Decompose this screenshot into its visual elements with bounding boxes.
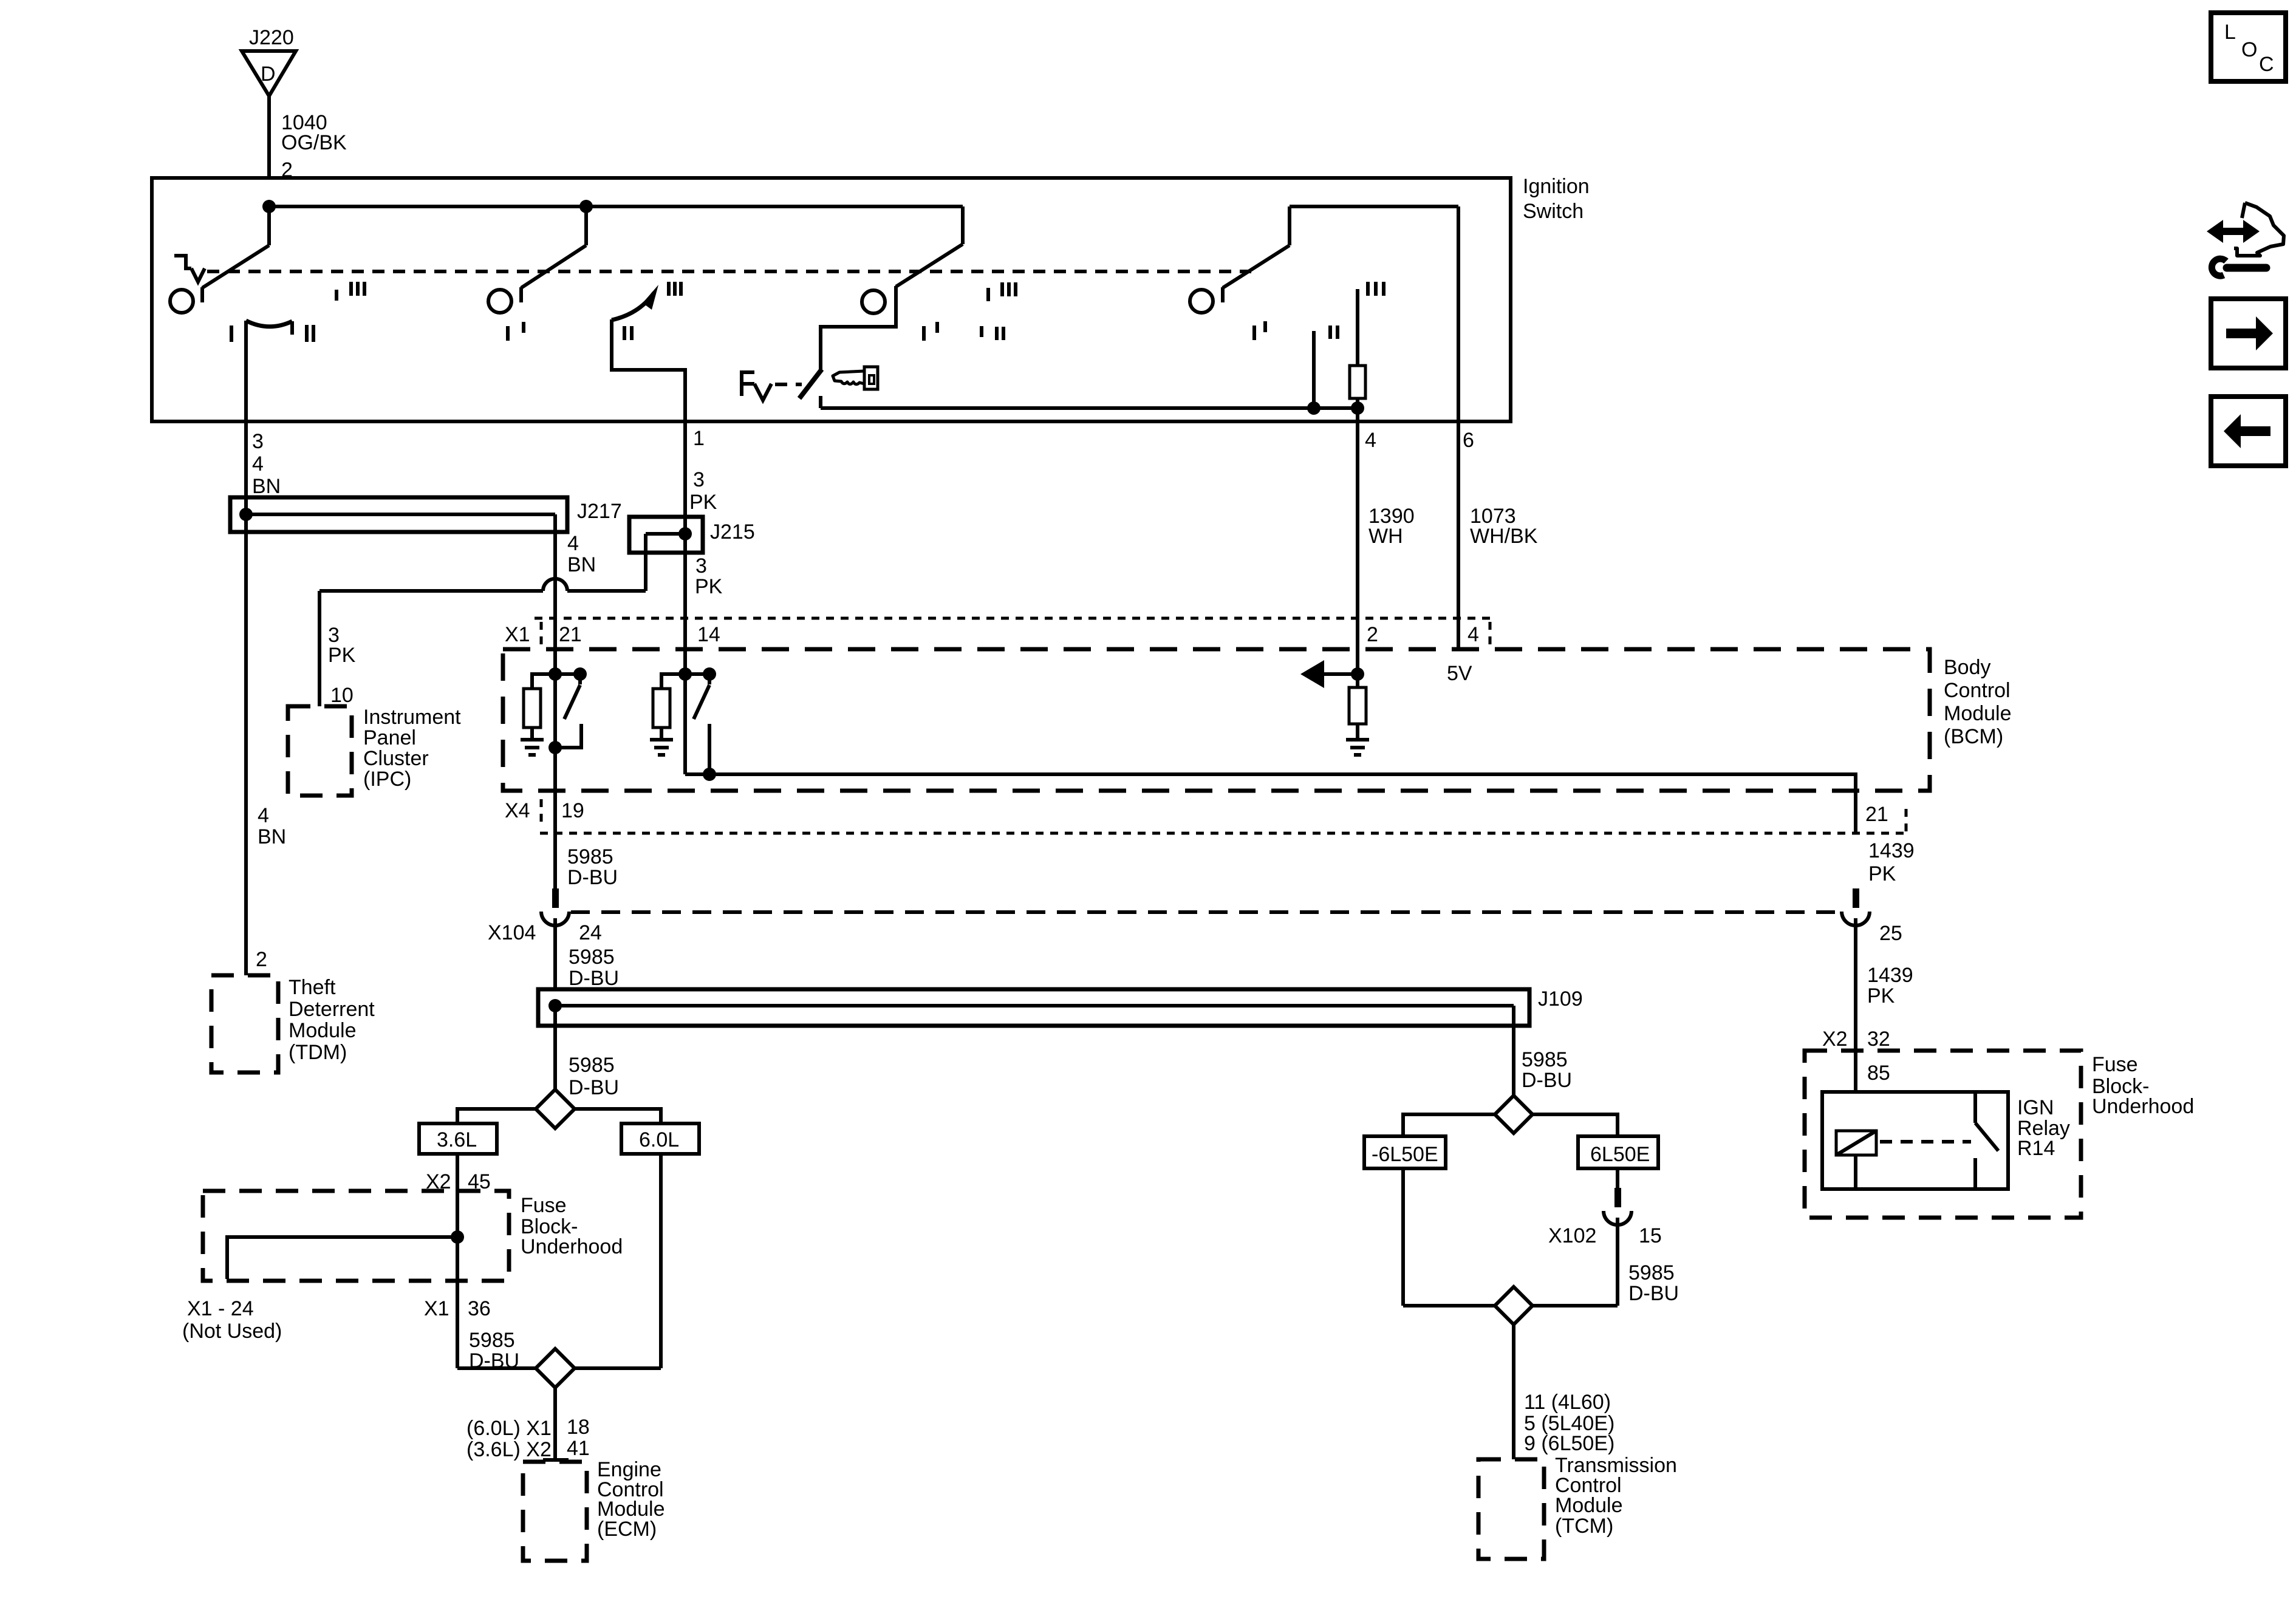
back navigation arrow box bbox=[2211, 397, 2286, 466]
option box 6L50E bbox=[1578, 1136, 1658, 1168]
wire ignition pin 4 bbox=[1358, 408, 1415, 674]
svg-text:2: 2 bbox=[256, 948, 267, 971]
svg-text:BN: BN bbox=[252, 475, 281, 498]
svg-text:PK: PK bbox=[1867, 984, 1895, 1007]
svg-text:D-BU: D-BU bbox=[1522, 1069, 1572, 1092]
BCM internal switch pin 21 bbox=[548, 667, 587, 791]
svg-text:(3.6L) X2: (3.6L) X2 bbox=[466, 1438, 552, 1461]
relay switch contact bbox=[1975, 1092, 1998, 1189]
BCM internal wire to pin 21 output bbox=[685, 674, 1856, 833]
svg-text:BN: BN bbox=[567, 553, 596, 576]
svg-text:24: 24 bbox=[579, 921, 602, 944]
svg-text:4: 4 bbox=[252, 452, 264, 476]
instrument panel cluster (IPC) box bbox=[288, 706, 461, 796]
svg-text:5985: 5985 bbox=[469, 1329, 515, 1352]
svg-text:19: 19 bbox=[561, 799, 584, 822]
BCM pulldown resistor pin 2 bbox=[1349, 674, 1366, 738]
svg-text:Ignition: Ignition bbox=[1523, 175, 1590, 198]
svg-text:5V: 5V bbox=[1447, 662, 1472, 685]
svg-text:Instrument: Instrument bbox=[363, 706, 461, 729]
wiper arc contact (switch 1 output) bbox=[231, 321, 313, 342]
internal bus line at box bottom bbox=[821, 401, 1364, 415]
svg-text:WH: WH bbox=[1368, 525, 1403, 548]
svg-text:X4: X4 bbox=[505, 799, 530, 822]
key operated switch blade bbox=[799, 369, 822, 408]
svg-text:X2: X2 bbox=[1822, 1028, 1848, 1051]
svg-text:D-BU: D-BU bbox=[569, 1076, 619, 1099]
splice pack J109 bbox=[538, 987, 1583, 1026]
svg-text:PK: PK bbox=[328, 644, 356, 667]
wire to 6.0L option bbox=[575, 1109, 661, 1123]
svg-text:(ECM): (ECM) bbox=[597, 1518, 657, 1541]
svg-text:5985: 5985 bbox=[569, 1054, 615, 1077]
svg-text:J215: J215 bbox=[710, 520, 755, 544]
svg-text:IGN: IGN bbox=[2017, 1096, 2054, 1119]
wire 1439 PK from X104 to fuse block bbox=[1822, 918, 1913, 1092]
BCM connector row X1 bbox=[505, 618, 1490, 646]
svg-text:-6L50E: -6L50E bbox=[1372, 1143, 1438, 1166]
fuse block underhood (right) box bbox=[1805, 1051, 2194, 1218]
svg-text:3: 3 bbox=[693, 468, 705, 491]
svg-text:41: 41 bbox=[567, 1437, 590, 1460]
svg-text:PK: PK bbox=[689, 491, 717, 514]
svg-text:(TDM): (TDM) bbox=[289, 1041, 347, 1064]
wire 5985 D-BU from BCM X4 19 bbox=[555, 791, 618, 889]
svg-text:L: L bbox=[2224, 21, 2236, 44]
BCM input network pin 21 (resistor to ground) bbox=[524, 667, 562, 738]
internal feed rail bbox=[262, 200, 963, 213]
position marks I II (switch 3) bbox=[924, 322, 1003, 341]
splice pack J215 bbox=[629, 517, 755, 553]
inline connector X104 pin 24 bbox=[488, 888, 1842, 944]
vehicle diagnostic icon (double arrow) bbox=[2207, 220, 2260, 243]
wire 5985 D-BU below X102 bbox=[1618, 1218, 1679, 1306]
wire 5985 D-BU from X104 to J109 bbox=[555, 918, 619, 990]
svg-text:OG/BK: OG/BK bbox=[281, 131, 347, 154]
svg-text:4: 4 bbox=[1365, 429, 1376, 452]
svg-text:BN: BN bbox=[258, 825, 286, 848]
svg-text:Module: Module bbox=[1944, 702, 2012, 725]
position dashed line bbox=[207, 270, 1251, 273]
svg-text:O: O bbox=[2241, 38, 2257, 61]
splice diamond (ECM) bbox=[457, 1349, 661, 1388]
svg-text:Underhood: Underhood bbox=[2092, 1095, 2194, 1118]
svg-text:6.0L: 6.0L bbox=[639, 1128, 679, 1151]
engine control module (ECM) box bbox=[523, 1458, 665, 1561]
theft deterrent module (TDM) box bbox=[211, 975, 375, 1072]
ground (BCM left) bbox=[521, 740, 544, 755]
svg-text:Panel: Panel bbox=[363, 726, 416, 749]
wire to ECM bbox=[466, 1388, 590, 1461]
svg-text:C: C bbox=[2259, 53, 2274, 76]
svg-text:5985: 5985 bbox=[567, 845, 613, 868]
position II contact line bbox=[1312, 331, 1316, 408]
svg-text:3: 3 bbox=[695, 554, 707, 578]
relay coil bbox=[1836, 1131, 1876, 1189]
svg-text:Cluster: Cluster bbox=[363, 747, 429, 770]
svg-text:R14: R14 bbox=[2017, 1137, 2055, 1160]
svg-text:Module: Module bbox=[1555, 1494, 1623, 1517]
switch contact 1 (ACC) bbox=[170, 206, 269, 313]
svg-text:4: 4 bbox=[567, 532, 579, 555]
LOC legend box bbox=[2211, 13, 2286, 81]
position marks I (switch 2) bbox=[508, 322, 524, 341]
svg-text:Switch: Switch bbox=[1523, 200, 1584, 223]
wire 1040 OG/BK from J220 to ignition switch bbox=[269, 96, 347, 182]
svg-text:25: 25 bbox=[1879, 922, 1902, 945]
svg-text:Module: Module bbox=[289, 1019, 357, 1042]
wire to -6L50E option bbox=[1403, 1114, 1495, 1136]
wire 1439 PK from BCM pin 21 bbox=[1868, 839, 1915, 885]
connector J220 bbox=[242, 26, 296, 96]
relay linkage dashed bbox=[1880, 1140, 1971, 1144]
wire to 3.6L option bbox=[457, 1109, 536, 1123]
IGN relay R14 bbox=[1822, 1092, 2070, 1189]
wire 4 BN from J217 to BCM bbox=[555, 514, 596, 674]
wire from 3.6L into fuse block bbox=[426, 1154, 491, 1281]
inline connector X104 pin 25 bbox=[1842, 888, 1902, 945]
svg-text:Deterrent: Deterrent bbox=[289, 998, 375, 1021]
vehicle diagnostic icon (car outline) bbox=[2234, 203, 2284, 256]
position marks I II III (switch 4) bbox=[1254, 282, 1384, 340]
BCM input network pin 14 (resistor to ground) bbox=[653, 667, 692, 738]
ground (BCM right) bbox=[650, 740, 673, 755]
splice diamond (engine branch) bbox=[536, 1089, 575, 1128]
svg-text:4: 4 bbox=[258, 804, 269, 827]
key switch actuator symbol bbox=[742, 372, 802, 400]
wire 4 BN left column bbox=[246, 497, 286, 975]
svg-text:(6.0L) X1: (6.0L) X1 bbox=[466, 1417, 552, 1440]
svg-text:X102: X102 bbox=[1548, 1224, 1596, 1247]
svg-text:36: 36 bbox=[468, 1297, 491, 1320]
svg-text:Underhood: Underhood bbox=[521, 1235, 623, 1258]
svg-text:5985: 5985 bbox=[1522, 1048, 1568, 1071]
svg-text:1: 1 bbox=[693, 427, 705, 450]
park position symbol bbox=[174, 256, 205, 282]
wire 3 PK from J215 to IPC with crossover hop bbox=[319, 534, 646, 707]
svg-text:21: 21 bbox=[1865, 803, 1888, 826]
svg-text:32: 32 bbox=[1867, 1028, 1890, 1051]
switch contact 2 (RUN) bbox=[488, 206, 586, 313]
wire from switch 3 to key switch bbox=[821, 301, 896, 371]
forward navigation arrow box bbox=[2211, 299, 2286, 368]
svg-text:2: 2 bbox=[1367, 623, 1378, 646]
svg-text:(TCM): (TCM) bbox=[1555, 1515, 1613, 1538]
ignition switch box bbox=[152, 175, 1590, 421]
BCM 5V reference arrow bbox=[1300, 660, 1472, 688]
svg-text:5985: 5985 bbox=[569, 946, 615, 969]
svg-text:11 (4L60): 11 (4L60) bbox=[1524, 1391, 1611, 1414]
fuse block underhood (left) box bbox=[203, 1191, 623, 1281]
wire ignition pin 3 bbox=[246, 321, 281, 498]
svg-text:D-BU: D-BU bbox=[567, 866, 618, 889]
svg-text:X1: X1 bbox=[424, 1297, 449, 1320]
spring return arc with arrow (switch 2) bbox=[612, 282, 681, 340]
wire ignition pin 1 bbox=[612, 319, 717, 517]
svg-text:21: 21 bbox=[559, 623, 582, 646]
position marks III (switch 1) bbox=[337, 282, 364, 301]
svg-text:J217: J217 bbox=[577, 500, 622, 523]
svg-text:1439: 1439 bbox=[1868, 839, 1915, 862]
svg-text:15: 15 bbox=[1639, 1224, 1662, 1247]
option box -6L50E bbox=[1364, 1136, 1446, 1168]
svg-text:PK: PK bbox=[695, 575, 723, 598]
svg-text:14: 14 bbox=[697, 623, 720, 646]
svg-text:6: 6 bbox=[1463, 429, 1474, 452]
svg-text:3: 3 bbox=[252, 430, 264, 453]
svg-text:X104: X104 bbox=[488, 921, 536, 944]
body control module (BCM) box bbox=[503, 649, 2012, 791]
svg-text:9 (6L50E): 9 (6L50E) bbox=[1524, 1432, 1614, 1455]
svg-text:D: D bbox=[261, 63, 276, 86]
svg-text:(IPC): (IPC) bbox=[363, 768, 411, 791]
wire ignition pin 6 bbox=[1458, 206, 1538, 649]
splice diamond (TCM) bbox=[1403, 1287, 1618, 1325]
switch contact 3 (key sense) bbox=[862, 206, 963, 313]
svg-text:18: 18 bbox=[567, 1416, 590, 1439]
svg-text:5985: 5985 bbox=[1628, 1261, 1675, 1284]
transmission control module (TCM) box bbox=[1478, 1454, 1677, 1559]
svg-text:6L50E: 6L50E bbox=[1590, 1143, 1650, 1166]
svg-text:D-BU: D-BU bbox=[1628, 1282, 1679, 1305]
wire 5985 D-BU from J109 to splice bbox=[555, 1006, 619, 1099]
svg-text:4: 4 bbox=[1467, 623, 1479, 646]
wire 5985 D-BU from fuse block X1 36 bbox=[424, 1281, 519, 1372]
svg-text:D-BU: D-BU bbox=[569, 967, 619, 990]
svg-text:Fuse: Fuse bbox=[2092, 1053, 2138, 1076]
resistor (ignition switch) bbox=[1350, 289, 1365, 408]
position marks III (switch 3) bbox=[988, 282, 1016, 301]
splice pack J217 bbox=[230, 497, 622, 532]
svg-text:1439: 1439 bbox=[1867, 964, 1913, 987]
inline connector X102 pin 15 bbox=[1548, 1168, 1662, 1247]
svg-text:Body: Body bbox=[1944, 656, 1991, 679]
svg-text:PK: PK bbox=[1868, 862, 1896, 885]
vehicle diagnostic icon (wrench) bbox=[2212, 259, 2266, 276]
svg-text:(Not Used): (Not Used) bbox=[182, 1320, 282, 1343]
BCM internal switch pin 14 bbox=[685, 667, 716, 781]
unused feed branch X1-24 bbox=[182, 1230, 464, 1343]
svg-text:10: 10 bbox=[330, 684, 354, 707]
svg-text:Fuse: Fuse bbox=[521, 1194, 567, 1217]
svg-text:X1: X1 bbox=[505, 623, 530, 646]
svg-text:J220: J220 bbox=[249, 26, 294, 49]
wire 3 PK from ignition through J215 to BCM bbox=[685, 517, 723, 674]
svg-text:3.6L: 3.6L bbox=[437, 1128, 477, 1151]
wire to 6L50E option bbox=[1532, 1114, 1618, 1136]
svg-text:Control: Control bbox=[1944, 679, 2011, 702]
wire from 6.0L option down bbox=[659, 1154, 663, 1368]
option box 6.0L bbox=[621, 1123, 699, 1154]
wire to TCM bbox=[1514, 1325, 1614, 1459]
svg-text:Theft: Theft bbox=[289, 976, 336, 999]
svg-text:J109: J109 bbox=[1538, 987, 1583, 1011]
svg-text:(BCM): (BCM) bbox=[1944, 725, 2003, 748]
svg-text:85: 85 bbox=[1867, 1062, 1890, 1085]
svg-text:WH/BK: WH/BK bbox=[1470, 525, 1538, 548]
option box 3.6L bbox=[419, 1123, 497, 1154]
key icon bbox=[833, 367, 878, 389]
ground (BCM pin 2) bbox=[1346, 740, 1369, 755]
switch contact 4 bbox=[1190, 206, 1458, 313]
wire 5985 D-BU from J109 right end bbox=[1514, 1006, 1572, 1096]
BCM connector row X4 bbox=[505, 799, 1909, 833]
splice diamond (transmission top) bbox=[1495, 1096, 1532, 1133]
svg-text:X1 - 24: X1 - 24 bbox=[187, 1297, 254, 1320]
wire from -6L50E down bbox=[1401, 1168, 1405, 1306]
